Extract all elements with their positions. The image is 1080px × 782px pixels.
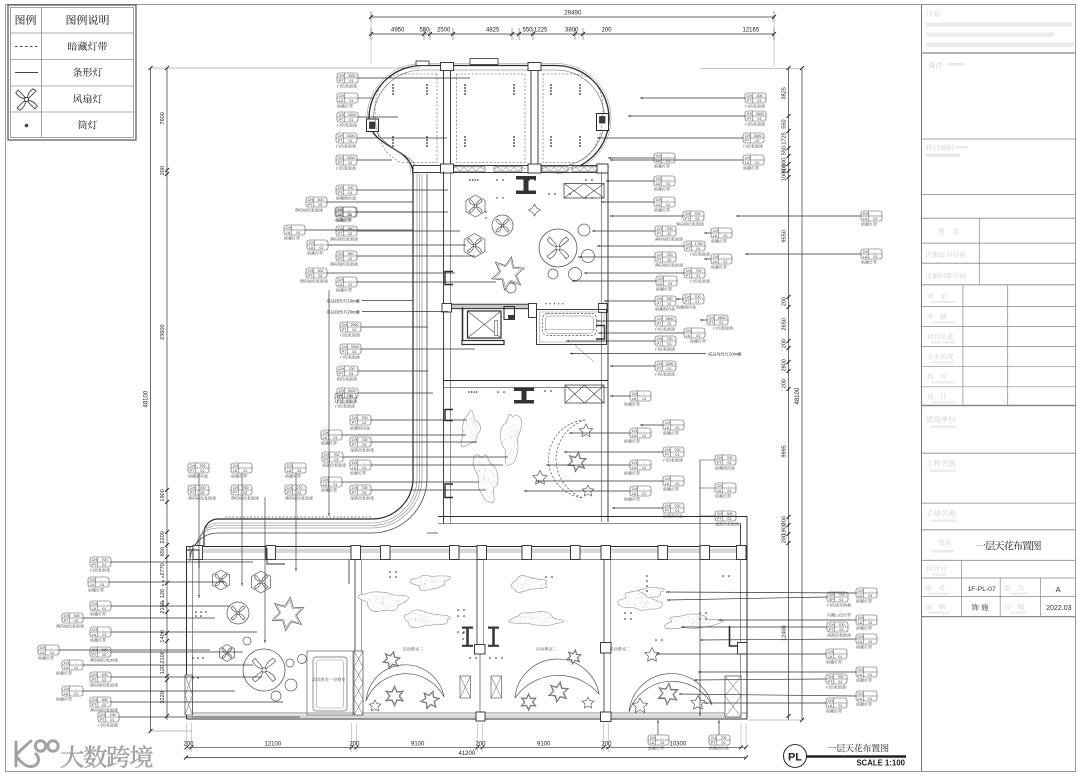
- svg-text:550: 550: [782, 119, 788, 128]
- svg-text:PT: PT: [64, 619, 69, 623]
- svg-text:PT: PT: [352, 421, 357, 425]
- svg-text:01: 01: [666, 159, 670, 163]
- svg-text:CH: CH: [286, 226, 292, 230]
- svg-text:CH: CH: [657, 297, 663, 301]
- svg-text:SP: SP: [829, 598, 834, 602]
- title block row 审定: [927, 293, 955, 303]
- bottom segment dimensions: [184, 723, 749, 752]
- svg-text:300: 300: [102, 648, 108, 652]
- svg-text:200: 200: [602, 28, 613, 34]
- svg-text:01: 01: [642, 434, 646, 438]
- svg-text:CH: CH: [308, 198, 314, 202]
- crescent shape: [515, 659, 599, 698]
- svg-text:CH: CH: [90, 578, 96, 582]
- svg-text:LA: LA: [233, 469, 238, 473]
- top segment dimensions: [369, 28, 776, 41]
- title block notes text: [926, 10, 1074, 47]
- svg-text:01: 01: [102, 563, 106, 567]
- svg-text:300: 300: [318, 198, 324, 202]
- title block 备注: [928, 62, 964, 69]
- label box CH3000/PT01 白色乳胶漆: [337, 388, 358, 403]
- svg-text:CH: CH: [233, 464, 239, 468]
- svg-text:CH: CH: [632, 429, 638, 433]
- title block row 审核: [927, 313, 955, 323]
- label box CH-/LA01 暗藏灯带: [321, 477, 342, 492]
- fan light (hex): [212, 570, 229, 590]
- svg-text:LA: LA: [828, 655, 833, 659]
- star 6pt: [421, 691, 440, 709]
- svg-text:01: 01: [110, 718, 114, 722]
- svg-text:700: 700: [696, 269, 702, 273]
- svg-text:01: 01: [675, 453, 679, 457]
- svg-text:CH: CH: [650, 736, 656, 740]
- leader line: [362, 300, 413, 302]
- svg-text:LA: LA: [858, 621, 863, 625]
- svg-text:01: 01: [642, 397, 646, 401]
- fan light (hex): [251, 571, 270, 593]
- svg-text:01: 01: [727, 489, 731, 493]
- svg-text:02: 02: [102, 703, 106, 707]
- leader line: [679, 693, 856, 696]
- svg-text:01: 01: [362, 421, 366, 425]
- fan light (circle): [492, 215, 513, 236]
- leader line: [704, 232, 711, 234]
- svg-text:700: 700: [102, 558, 108, 562]
- svg-text:48100: 48100: [795, 387, 801, 404]
- leader line: [628, 115, 745, 117]
- svg-text:01: 01: [675, 509, 679, 513]
- leader line: [357, 137, 447, 139]
- svg-text:01: 01: [695, 300, 699, 304]
- svg-text:PT: PT: [190, 469, 195, 473]
- svg-text:CH: CH: [658, 277, 664, 281]
- svg-text:LA: LA: [337, 213, 342, 217]
- svg-text:700: 700: [721, 736, 727, 740]
- star 6pt: [386, 686, 403, 706]
- svg-text:700: 700: [349, 367, 355, 371]
- svg-text:01: 01: [243, 469, 247, 473]
- svg-text:PT: PT: [92, 703, 97, 707]
- svg-text:CH: CH: [657, 317, 663, 321]
- svg-text:02: 02: [200, 491, 204, 495]
- label box CH-/LA01 暗藏灯带: [711, 228, 732, 243]
- svg-text:LA: LA: [650, 741, 655, 745]
- room 1 ceiling cove dashed: [375, 74, 437, 163]
- svg-text:01: 01: [333, 436, 337, 440]
- svg-text:01: 01: [347, 399, 351, 403]
- leader line: [656, 653, 826, 655]
- star 5pt: [579, 424, 592, 437]
- top block room divider wall 2: [531, 66, 538, 172]
- svg-text:CH: CH: [190, 464, 196, 468]
- label box CH2800/PT01 白色乳胶漆: [707, 315, 733, 330]
- playroom downlights: [162, 576, 207, 679]
- svg-text:01: 01: [349, 99, 353, 103]
- bottom band top wall: [187, 547, 748, 560]
- leader line: [596, 320, 655, 322]
- watermark text 大数跨境: [61, 745, 153, 768]
- playroom interior wall stub: [267, 548, 349, 584]
- svg-text:PT: PT: [233, 491, 238, 495]
- svg-text:CH: CH: [632, 487, 638, 491]
- label box CH-/LA01 暗藏灯带: [284, 225, 305, 240]
- svg-text:CH: CH: [287, 486, 293, 490]
- svg-text:CH: CH: [713, 229, 719, 233]
- svg-text:01: 01: [352, 328, 356, 332]
- divider wall D2 with door columns: [460, 560, 502, 722]
- svg-text:1725: 1725: [782, 132, 788, 144]
- svg-text:CH: CH: [92, 698, 98, 702]
- svg-text:12165: 12165: [743, 28, 760, 34]
- post right: [599, 304, 608, 313]
- star 5pt: [691, 696, 705, 710]
- svg-text:120: 120: [160, 589, 166, 598]
- leader line: [111, 561, 253, 563]
- svg-text:LA: LA: [309, 246, 314, 250]
- svg-text:02: 02: [667, 232, 671, 236]
- svg-text:3000: 3000: [348, 389, 356, 393]
- svg-text:01: 01: [348, 191, 352, 195]
- svg-text:CH: CH: [665, 448, 671, 452]
- label box CH-/LA01 暗藏灯带: [56, 660, 83, 675]
- svg-text:PT: PT: [342, 350, 347, 354]
- svg-text:300: 300: [757, 94, 763, 98]
- svg-text:3300: 3300: [347, 134, 355, 138]
- label box CH300/PT02 薄荷绿色乳胶漆: [300, 268, 328, 283]
- svg-text:01: 01: [838, 655, 842, 659]
- svg-text:01: 01: [100, 583, 104, 587]
- label box CH700/PT01 白色乳胶漆: [335, 393, 356, 408]
- cloud shape: [664, 613, 724, 630]
- svg-text:LA: LA: [656, 203, 661, 207]
- legend label 筒灯: [78, 120, 87, 129]
- big fan light playroom: [243, 649, 285, 691]
- svg-text:3450: 3450: [666, 362, 674, 366]
- label box CH-/LA01 暗藏灯带: [856, 588, 877, 603]
- svg-text:PT: PT: [657, 322, 662, 326]
- label box CH-/LA01 暗藏灯带: [856, 691, 877, 706]
- svg-text:02: 02: [74, 619, 78, 623]
- svg-text:PT: PT: [747, 99, 752, 103]
- svg-text:CH: CH: [339, 367, 345, 371]
- moon room downlights: [468, 390, 552, 403]
- svg-text:CH: CH: [686, 242, 692, 246]
- small circle light: [582, 250, 595, 263]
- svg-text:LA: LA: [632, 397, 637, 401]
- crescent shape: [366, 665, 444, 701]
- svg-text:PT: PT: [709, 321, 714, 325]
- legend label 条形灯: [73, 68, 82, 77]
- svg-text:700: 700: [243, 486, 249, 490]
- svg-text:01: 01: [666, 182, 670, 186]
- diagonal leader to label: [575, 345, 594, 362]
- svg-text:03: 03: [362, 443, 366, 447]
- leader line: [640, 97, 745, 99]
- svg-text:CH: CH: [709, 316, 715, 320]
- top block bottom wall with windows: [413, 166, 608, 173]
- star 6pt: [272, 597, 304, 631]
- room label 活动教室二 B: [536, 647, 540, 651]
- svg-text:CH: CH: [745, 156, 751, 160]
- svg-text:01: 01: [868, 594, 872, 598]
- label box CH-/LA01 暗藏灯带: [350, 460, 371, 475]
- label box CH3300/PT01 白色乳胶漆: [745, 111, 766, 126]
- leader line: [362, 311, 448, 313]
- label box CH-/LA01 暗藏灯带: [307, 240, 328, 255]
- label box CH-/LA01 暗藏灯带: [285, 463, 306, 478]
- big fan light: [539, 229, 577, 267]
- svg-text:700: 700: [675, 504, 681, 508]
- label box CH-/LA01 暗藏灯带: [56, 686, 83, 701]
- label box CH700/PT02 薄荷绿色乳胶漆: [655, 226, 683, 241]
- svg-text:PT: PT: [352, 491, 357, 495]
- svg-text:LA: LA: [286, 231, 291, 235]
- leader line: [566, 340, 655, 342]
- svg-text:01: 01: [868, 697, 872, 701]
- label box CH-/LA01 暗藏灯带: [90, 601, 111, 616]
- svg-text:01: 01: [838, 704, 842, 708]
- leader line: [111, 651, 243, 653]
- title block row 项目负责: [927, 333, 955, 343]
- svg-text:03: 03: [362, 491, 366, 495]
- leader line: [111, 676, 262, 678]
- leader line: [570, 353, 706, 355]
- top block room divider wall 1: [444, 66, 451, 172]
- feature ceiling room: [537, 310, 607, 345]
- svg-text:3300: 3300: [756, 112, 764, 116]
- svg-text:PT: PT: [685, 300, 690, 304]
- svg-text:CH: CH: [338, 252, 344, 256]
- leader line: [736, 215, 861, 217]
- svg-text:PT: PT: [339, 372, 344, 376]
- right overall dimension 48100: [795, 66, 804, 722]
- svg-text:2900: 2900: [351, 323, 359, 327]
- leader line: [371, 489, 486, 491]
- svg-text:01: 01: [868, 621, 872, 625]
- svg-text:PT: PT: [308, 274, 313, 278]
- svg-text:CH: CH: [352, 486, 358, 490]
- moon room right step wall: [741, 517, 748, 553]
- svg-text:PT: PT: [747, 117, 752, 121]
- svg-text:01: 01: [868, 640, 872, 644]
- svg-text:01: 01: [660, 741, 664, 745]
- label box CH3300/PT01 白色乳胶漆: [336, 155, 357, 170]
- svg-text:4950: 4950: [391, 28, 405, 34]
- svg-text:01: 01: [666, 203, 670, 207]
- leader line: [342, 434, 466, 436]
- leader line: [328, 244, 466, 246]
- label box CH-/LA01 暗藏灯带: [624, 428, 651, 443]
- svg-text:01: 01: [297, 469, 301, 473]
- label box CH-/LA01 暗藏灯带: [335, 207, 356, 222]
- leader line: [606, 180, 654, 182]
- svg-text:2800: 2800: [666, 317, 674, 321]
- extension line top-right: [700, 68, 802, 70]
- svg-text:CH: CH: [339, 94, 345, 98]
- svg-text:3300: 3300: [754, 134, 762, 138]
- corridor inner lines to moon room: [427, 532, 438, 534]
- leader line: [358, 392, 433, 394]
- svg-text:LA: LA: [323, 436, 328, 440]
- svg-text:CH: CH: [337, 208, 343, 212]
- leader line: [546, 464, 630, 466]
- svg-text:LA: LA: [858, 697, 863, 701]
- label box CH700/PT01 暗藏窗帘盒: [709, 735, 730, 750]
- label box CH-/LA01 暗藏灯带: [684, 328, 706, 343]
- label box CH-/LA01 暗藏灯带: [663, 420, 684, 435]
- svg-text:LA: LA: [686, 334, 691, 338]
- svg-text:01: 01: [721, 741, 725, 745]
- leader line: [745, 253, 861, 255]
- svg-text:2200: 2200: [160, 531, 166, 543]
- star 5pt: [645, 648, 659, 662]
- bottom band right wall: [741, 547, 748, 720]
- svg-text:CH: CH: [657, 337, 663, 341]
- top block outer wall: [369, 65, 609, 174]
- svg-text:29490: 29490: [564, 10, 582, 17]
- svg-text:PT: PT: [828, 680, 833, 684]
- leader line: [681, 626, 827, 628]
- svg-text:CH: CH: [858, 616, 864, 620]
- svg-text:300: 300: [348, 227, 354, 231]
- dots above feature room: [545, 303, 563, 304]
- svg-text:4825: 4825: [486, 28, 500, 34]
- svg-text:CH: CH: [685, 212, 691, 216]
- label box CH-/LA01 暗藏灯带: [654, 176, 675, 191]
- svg-text:CH: CH: [337, 394, 343, 398]
- leader line: [578, 256, 655, 258]
- svg-text:1750: 1750: [695, 242, 703, 246]
- svg-text:PT: PT: [657, 342, 662, 346]
- svg-text:PT: PT: [665, 453, 670, 457]
- label box CH-/LA01 暗藏灯带: [624, 486, 651, 501]
- left wall window hatch: [185, 675, 193, 715]
- label box CH-/LA01 暗藏灯带: [90, 627, 111, 642]
- right wall dark bracket: [730, 626, 748, 646]
- svg-text:01: 01: [757, 99, 761, 103]
- svg-text:700: 700: [110, 713, 116, 717]
- legend symbol fan light: [15, 88, 37, 110]
- up leader: [657, 720, 659, 735]
- svg-text:300: 300: [348, 252, 354, 256]
- svg-text:PT: PT: [657, 302, 662, 306]
- label box CH3300/PT01 白色乳胶漆: [337, 73, 358, 88]
- svg-text:01: 01: [755, 139, 759, 143]
- svg-text:02: 02: [695, 217, 699, 221]
- svg-text:LA: LA: [713, 234, 718, 238]
- svg-text:700: 700: [200, 464, 206, 468]
- svg-text:CH: CH: [338, 227, 344, 231]
- label box CH700/PT01 暗藏窗帘盒: [676, 294, 704, 309]
- top block inner wall line: [373, 70, 604, 174]
- svg-text:3800: 3800: [565, 28, 579, 34]
- leader line: [358, 116, 398, 118]
- label box CH-/LA01 暗藏灯带: [624, 460, 651, 475]
- label box CH3300/PT01 白色乳胶漆: [336, 133, 357, 148]
- crescent shape: [549, 420, 585, 498]
- svg-text:PT: PT: [338, 191, 343, 195]
- bottom band left wall: [187, 547, 193, 720]
- svg-text:02: 02: [318, 203, 322, 207]
- legend label 暗藏灯带: [68, 42, 77, 51]
- svg-text:200: 200: [782, 339, 788, 348]
- svg-text:700: 700: [348, 186, 354, 190]
- svg-text:PT: PT: [829, 628, 834, 632]
- svg-text:03: 03: [334, 458, 338, 462]
- down leader: [295, 473, 297, 571]
- left overall dimension 48100: [144, 66, 153, 733]
- elevator shaft: [462, 308, 504, 345]
- svg-text:CH: CH: [339, 74, 345, 78]
- svg-text:200: 200: [184, 742, 195, 748]
- cloud shape: [357, 591, 409, 613]
- title block 子项名称: [926, 510, 956, 522]
- svg-text:LA: LA: [323, 483, 328, 487]
- svg-text:CH: CH: [323, 431, 329, 435]
- svg-text:CH: CH: [92, 648, 98, 652]
- svg-text:CH: CH: [711, 736, 717, 740]
- svg-text:PT: PT: [92, 678, 97, 682]
- cloud shape: [498, 414, 522, 467]
- svg-text:CH: CH: [352, 461, 358, 465]
- label box CH-/LA01 暗藏灯带: [624, 391, 651, 406]
- svg-text:CH: CH: [100, 713, 106, 717]
- svg-text:CH: CH: [717, 456, 723, 460]
- svg-text:PT: PT: [657, 258, 662, 262]
- svg-text:PT: PT: [100, 718, 105, 722]
- svg-text:9550: 9550: [782, 230, 788, 242]
- leader line: [667, 597, 827, 601]
- svg-text:PT: PT: [686, 274, 691, 278]
- cloud shape: [471, 451, 503, 505]
- leader line: [305, 229, 413, 231]
- svg-text:CH: CH: [863, 212, 869, 216]
- label box CH700/PT01 暗藏窗帘盒: [350, 415, 371, 430]
- svg-text:300: 300: [318, 269, 324, 273]
- svg-text:1900: 1900: [160, 489, 166, 501]
- top edge tab 1: [416, 61, 429, 66]
- leader line: [700, 639, 856, 641]
- leader line: [572, 280, 656, 282]
- label box CH-/LA01 暗藏灯带: [743, 155, 764, 170]
- svg-text:CH: CH: [64, 661, 70, 665]
- svg-text:01: 01: [868, 673, 872, 677]
- title block left border: [921, 5, 923, 772]
- svg-text:LA: LA: [656, 159, 661, 163]
- small circle light: [548, 269, 558, 279]
- svg-text:01: 01: [696, 334, 700, 338]
- leader line: [694, 679, 826, 681]
- room 2 ceiling cove dashed: [457, 74, 526, 163]
- svg-text:LA: LA: [632, 466, 637, 470]
- svg-text:LA: LA: [90, 583, 95, 587]
- wall bracket L3: [445, 484, 453, 498]
- svg-text:CH: CH: [92, 628, 98, 632]
- leader line: [83, 617, 215, 619]
- leader line: [536, 480, 663, 482]
- svg-text:01: 01: [200, 469, 204, 473]
- label box CH-/LA01 暗藏灯带: [337, 93, 358, 108]
- hatched beam top: [564, 184, 604, 199]
- svg-text:1900: 1900: [782, 523, 788, 535]
- svg-text:CH: CH: [665, 477, 671, 481]
- wall post bottom 1: [441, 164, 454, 173]
- leader line: [357, 255, 475, 257]
- svg-text:01: 01: [667, 367, 671, 371]
- svg-text:700: 700: [727, 456, 733, 460]
- leader line: [597, 137, 743, 139]
- svg-text:01: 01: [333, 483, 337, 487]
